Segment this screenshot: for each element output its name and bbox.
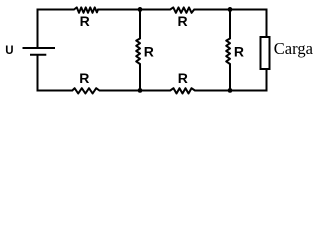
svg-text:R: R bbox=[79, 70, 89, 86]
svg-text:R: R bbox=[178, 70, 188, 86]
svg-text:Carga: Carga bbox=[274, 39, 314, 58]
svg-text:R: R bbox=[80, 13, 90, 29]
svg-text:R: R bbox=[144, 44, 154, 60]
svg-text:R: R bbox=[234, 44, 244, 60]
svg-text:U: U bbox=[5, 45, 13, 57]
svg-text:R: R bbox=[178, 13, 188, 29]
